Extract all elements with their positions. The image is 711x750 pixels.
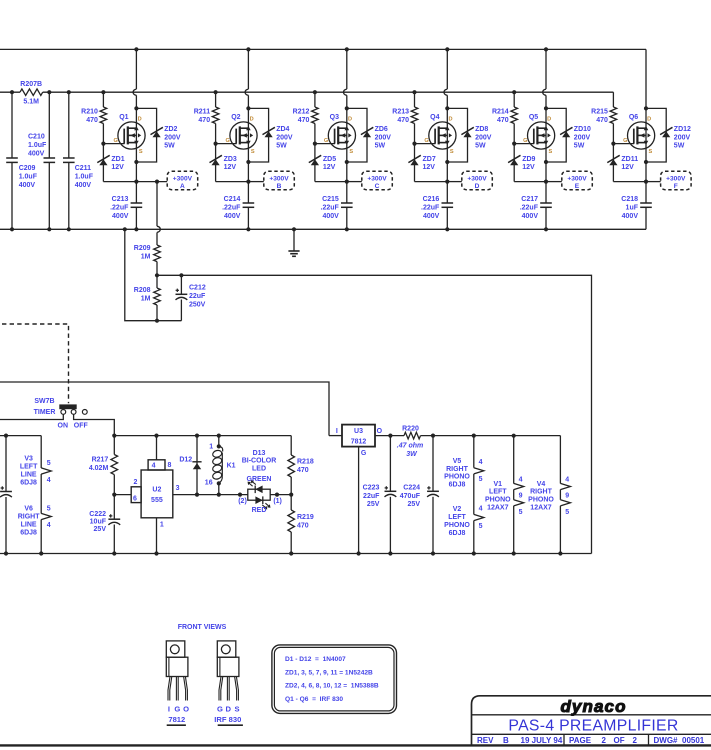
tube V6 RIGHT LINE 6DJ8 heater (41, 513, 51, 519)
timer U2 555 (141, 470, 173, 518)
svg-text:1: 1 (160, 522, 164, 529)
capacitor C218 1uF 400V (640, 202, 652, 204)
svg-text:PAS-4 PREAMPLIFIER: PAS-4 PREAMPLIFIER (508, 717, 678, 734)
svg-text:6DJ8: 6DJ8 (449, 530, 466, 537)
svg-text:200V: 200V (475, 134, 492, 141)
svg-text:C211: C211 (75, 165, 91, 172)
wire: drain branch to ZD4 (248, 108, 268, 162)
svg-text:S: S (251, 149, 255, 155)
svg-text:1M: 1M (141, 253, 151, 260)
svg-text:S: S (450, 149, 454, 155)
resistor R208 1M (156, 275, 158, 288)
svg-text:R218: R218 (297, 458, 314, 465)
wire: source bottom wire of Q2 (216, 181, 249, 183)
svg-text:12AX7: 12AX7 (530, 504, 552, 511)
svg-text:S: S (549, 149, 553, 155)
svg-text:ZD1, 3, 5, 7, 9, 11 = 1N5242B: ZD1, 3, 5, 7, 9, 11 = 1N5242B (285, 669, 373, 676)
wire: R217/C222 junction to U2 pins 2,6 (114, 494, 131, 496)
diode D12 1N4007 (196, 436, 198, 495)
wire: switch linkage (dashed) (2, 324, 69, 403)
svg-text:470: 470 (198, 117, 210, 124)
page bottom border (0, 744, 711, 746)
svg-text:G: G (114, 138, 118, 144)
svg-text:10uF: 10uF (90, 519, 107, 526)
resistor R215 470 (610, 107, 617, 124)
wire: middle rail (43, 91, 614, 93)
svg-text:00501: 00501 (682, 736, 705, 745)
node +300V B page connector (264, 171, 295, 190)
svg-text:ZD1: ZD1 (111, 156, 124, 163)
svg-text:D: D (250, 117, 254, 123)
svg-text:C217: C217 (521, 196, 538, 203)
wire: U2 pin 1 to return (156, 518, 158, 554)
tube V3 LEFT LINE 6DJ8 heater (40, 436, 42, 468)
svg-text:5W: 5W (674, 143, 685, 150)
wire: heater return bus (0, 553, 592, 555)
wire: gate lead of Q5 (514, 143, 534, 145)
svg-text:C213: C213 (112, 196, 129, 203)
svg-text:400V: 400V (28, 150, 45, 157)
svg-text:5.1M: 5.1M (23, 99, 39, 106)
svg-text:2: 2 (602, 736, 607, 745)
svg-text:19 JULY 94: 19 JULY 94 (521, 736, 563, 745)
svg-text:6DJ8: 6DJ8 (20, 479, 37, 486)
svg-text:12V: 12V (423, 164, 436, 171)
svg-text:K1: K1 (227, 463, 236, 470)
transistor Q6 IRF830 MOSFET (628, 122, 655, 149)
svg-text:.47 ohm: .47 ohm (397, 442, 423, 449)
svg-text:G: G (324, 138, 328, 144)
svg-text:6DJ8: 6DJ8 (449, 482, 466, 489)
svg-text:5: 5 (47, 505, 51, 512)
svg-text:.22uF: .22uF (110, 204, 129, 211)
node: heater bias divider midpoint (155, 273, 159, 277)
svg-text:S: S (349, 149, 353, 155)
svg-text:470: 470 (497, 117, 509, 124)
zener diode ZD12 200V 5W (662, 131, 670, 137)
svg-text:+300V: +300V (567, 175, 587, 182)
zener diode ZD6 200V 5W (363, 131, 371, 137)
transistor Q2 IRF830 MOSFET (230, 122, 257, 149)
wire: drain-source column of Q6 (645, 49, 647, 203)
svg-text:8: 8 (168, 462, 172, 469)
svg-text:200V: 200V (276, 134, 293, 141)
svg-text:D: D (448, 117, 452, 123)
wire: bottom return rail (0, 228, 646, 230)
svg-text:7812: 7812 (351, 438, 367, 445)
svg-text:4: 4 (479, 506, 483, 513)
svg-text:(2): (2) (238, 498, 247, 505)
svg-text:R213: R213 (392, 109, 409, 116)
svg-text:5W: 5W (276, 143, 287, 150)
svg-text:C: C (375, 183, 380, 190)
title block (472, 696, 711, 746)
svg-text:C216: C216 (423, 196, 440, 203)
capacitor C214 .22uF 400V (243, 202, 255, 204)
svg-text:6: 6 (133, 496, 137, 503)
svg-text:200V: 200V (674, 134, 691, 141)
svg-text:Q5: Q5 (529, 114, 538, 121)
capacitor C211 1.0uF 400V (68, 92, 70, 158)
svg-text:C222: C222 (89, 511, 106, 518)
svg-text:ZD9: ZD9 (522, 156, 535, 163)
svg-text:R208: R208 (134, 287, 151, 294)
svg-text:E: E (575, 183, 580, 190)
wire: drain-source column of Q1 (135, 49, 137, 89)
svg-text:F: F (674, 183, 678, 190)
svg-text:Q1 - Q6 = IRF 830: Q1 - Q6 = IRF 830 (285, 696, 343, 703)
svg-text:OFF: OFF (74, 422, 89, 429)
wire: gate lead of Q6 (613, 143, 634, 145)
svg-text:1M: 1M (141, 295, 151, 302)
capacitor C223 22uF 25V (389, 436, 391, 492)
wire: U2 pins 4,8 to +12V (156, 436, 158, 460)
zener diode ZD7 12V (410, 159, 418, 165)
wire: gate column R215 branch (612, 92, 614, 107)
svg-text:5: 5 (519, 509, 523, 516)
svg-text:R210: R210 (81, 109, 98, 116)
svg-text:+300V: +300V (467, 175, 487, 182)
svg-text:400V: 400V (75, 182, 92, 189)
wire: +300V tap D (447, 181, 462, 183)
wire: heater supply top left segment (0, 435, 41, 437)
svg-text:16: 16 (205, 479, 213, 486)
svg-text:5W: 5W (475, 143, 486, 150)
capacitor C212 22uF 250V (180, 275, 182, 294)
svg-text:RIGHT: RIGHT (18, 514, 41, 521)
svg-text:5W: 5W (375, 143, 386, 150)
zener diode ZD3 12V (212, 159, 220, 165)
svg-text:1.0uF: 1.0uF (19, 173, 38, 180)
wire: V5 to V2 heater link (473, 474, 475, 515)
svg-text:V2: V2 (453, 506, 462, 513)
svg-text:IRF 830: IRF 830 (214, 715, 241, 724)
svg-text:R212: R212 (293, 109, 310, 116)
svg-text:470: 470 (298, 117, 310, 124)
wire: gate column R212 branch (314, 92, 316, 107)
svg-text:C223: C223 (363, 484, 380, 491)
svg-text:4: 4 (47, 477, 51, 484)
svg-text:12V: 12V (111, 164, 124, 171)
package front view Q1-Q6 IRF 830 (G D S) (217, 641, 236, 657)
svg-text:1.0uF: 1.0uF (28, 142, 47, 149)
svg-text:6DJ8: 6DJ8 (20, 530, 37, 537)
svg-text:5: 5 (479, 523, 483, 530)
svg-text:4: 4 (47, 522, 51, 529)
svg-text:dynaco: dynaco (560, 697, 626, 716)
svg-text:470: 470 (297, 467, 309, 474)
svg-text:25V: 25V (367, 501, 380, 508)
transistor Q4 IRF830 MOSFET (429, 122, 456, 149)
wire: drain-source column of Q4 (446, 49, 448, 89)
svg-text:O: O (377, 428, 383, 435)
svg-text:ZD10: ZD10 (574, 126, 591, 133)
capacitor (heater filter, off-page label) (5, 436, 7, 492)
svg-text:R214: R214 (492, 109, 509, 116)
zener diode ZD4 200V 5W (265, 131, 273, 137)
capacitor C222 10uF 25V (113, 495, 115, 520)
svg-text:9: 9 (565, 492, 569, 499)
wire: raw DC supply to U3 (0, 382, 329, 436)
svg-text:.22uF: .22uF (520, 204, 539, 211)
svg-text:470: 470 (86, 117, 98, 124)
svg-text:3: 3 (176, 485, 180, 492)
svg-text:V1: V1 (494, 481, 503, 488)
svg-text:250V: 250V (189, 301, 206, 308)
resistor R212 470 (312, 107, 319, 124)
svg-text:D: D (647, 117, 651, 123)
zener diode ZD8 200V 5W (463, 131, 471, 137)
svg-text:R215: R215 (591, 109, 608, 116)
svg-text:+300V: +300V (367, 175, 387, 182)
wire: +300V tap F (646, 181, 661, 183)
capacitor C224 470uF 25V (432, 436, 434, 492)
svg-text:12V: 12V (522, 164, 535, 171)
svg-text:C212: C212 (189, 284, 206, 291)
svg-text:ZD2, 4, 6, 8, 10, 12 = 1N5388: ZD2, 4, 6, 8, 10, 12 = 1N5388B (285, 683, 379, 690)
wire: drain branch to ZD2 (136, 108, 156, 162)
svg-text:D13: D13 (253, 450, 266, 457)
svg-text:.22uF: .22uF (222, 204, 241, 211)
notes box (272, 645, 397, 714)
wire: drain branch to ZD8 (447, 108, 467, 162)
svg-text:PHONO: PHONO (485, 497, 511, 504)
wire: gate node to zener ZD11 (612, 124, 614, 182)
zener diode ZD9 12V (510, 159, 518, 165)
svg-text:R220: R220 (402, 425, 419, 432)
svg-text:.22uF: .22uF (421, 204, 440, 211)
package front view U3 7812 (I G O) (166, 641, 185, 657)
wire: source bottom wire of Q1 (103, 181, 136, 183)
svg-text:FRONT VIEWS: FRONT VIEWS (178, 624, 227, 631)
svg-text:G: G (424, 138, 428, 144)
wire: switch ON contact to timer circuit (74, 414, 115, 435)
wire: gate lead of Q1 (103, 143, 124, 145)
svg-text:ZD4: ZD4 (276, 126, 289, 133)
resistor R213 470 (411, 107, 418, 124)
svg-text:ZD12: ZD12 (674, 126, 691, 133)
svg-text:D12: D12 (179, 456, 192, 463)
wire: gate node to zener ZD1 (102, 124, 104, 182)
ground (293, 229, 295, 251)
svg-text:470: 470 (397, 117, 409, 124)
svg-text:1.0uF: 1.0uF (75, 173, 94, 180)
svg-text:I: I (336, 428, 338, 435)
svg-text:4: 4 (479, 459, 483, 466)
svg-text:S: S (235, 705, 240, 714)
svg-text:400V: 400V (224, 213, 241, 220)
svg-text:470: 470 (297, 523, 309, 530)
svg-text:D: D (475, 183, 480, 190)
relay K1 coil (218, 436, 220, 447)
wire: U2 pin 3 output (173, 494, 248, 496)
svg-text:ZD6: ZD6 (375, 126, 388, 133)
svg-text:A: A (180, 183, 185, 190)
svg-text:9: 9 (519, 492, 523, 499)
svg-text:4: 4 (152, 463, 156, 470)
node +300V D page connector (462, 171, 493, 190)
svg-text:ZD2: ZD2 (164, 126, 177, 133)
wire: heater supply bus (421, 435, 561, 437)
svg-text:D: D (138, 117, 142, 123)
wire: +300V tap A (136, 181, 167, 183)
capacitor C213 .22uF 400V (131, 202, 143, 204)
wire: source bottom wire of Q3 (315, 181, 347, 183)
wire: gate lead of Q4 (415, 143, 436, 145)
svg-text:12V: 12V (621, 164, 634, 171)
svg-text:LEFT: LEFT (20, 463, 38, 470)
svg-text:22uF: 22uF (363, 493, 380, 500)
svg-text:R211: R211 (194, 109, 210, 116)
svg-text:B: B (277, 183, 282, 190)
svg-text:LED: LED (252, 465, 266, 472)
svg-text:D1 - D12 = 1N4007: D1 - D12 = 1N4007 (285, 656, 346, 663)
wire: B+ feed from +300V A to divider (hops bottom rail) (155, 180, 159, 184)
wire: +300V tap C (347, 181, 362, 183)
svg-text:C224: C224 (403, 484, 420, 491)
svg-text:G: G (623, 138, 627, 144)
svg-text:400V: 400V (622, 213, 639, 220)
svg-text:RIGHT: RIGHT (530, 489, 553, 496)
svg-text:7812: 7812 (168, 715, 185, 724)
svg-text:V4: V4 (537, 481, 546, 488)
wire: U3 ground lead (358, 447, 360, 554)
svg-text:.22uF: .22uF (321, 204, 340, 211)
svg-text:V5: V5 (453, 458, 462, 465)
svg-text:1uF: 1uF (626, 204, 639, 211)
wire: drain-source column of Q5 (545, 49, 547, 89)
wire: middle rail left segment (0, 91, 20, 93)
svg-text:O: O (183, 705, 189, 714)
svg-text:5: 5 (565, 509, 569, 516)
wire: gate column R211 branch (215, 92, 217, 107)
svg-text:R217: R217 (92, 456, 109, 463)
svg-text:4.02M: 4.02M (89, 465, 109, 472)
svg-text:22uF: 22uF (189, 293, 206, 300)
svg-text:ZD7: ZD7 (423, 156, 436, 163)
svg-text:G: G (174, 705, 180, 714)
svg-text:C209: C209 (19, 165, 36, 172)
node +300V C page connector (362, 171, 393, 190)
regulator U3 7812 (329, 435, 342, 437)
wire: gate node to zener ZD3 (215, 124, 217, 182)
svg-text:12V: 12V (224, 164, 237, 171)
zener diode ZD10 200V 5W (562, 131, 570, 137)
svg-text:Q6: Q6 (629, 114, 638, 121)
wire: gate column R214 branch (513, 92, 515, 107)
svg-text:U2: U2 (152, 486, 161, 493)
svg-text:RED: RED (252, 507, 267, 514)
svg-text:C210: C210 (28, 133, 45, 140)
resistor R209 1M (154, 245, 161, 262)
svg-text:BI-COLOR: BI-COLOR (242, 458, 277, 465)
svg-text:S: S (139, 149, 143, 155)
svg-text:C215: C215 (322, 196, 339, 203)
wire: source bottom wire of Q4 (415, 181, 448, 183)
svg-text:2: 2 (633, 736, 638, 745)
zener diode ZD5 12V (311, 159, 319, 165)
resistor R214 470 (511, 107, 518, 124)
transistor Q1 IRF830 MOSFET (118, 122, 145, 149)
capacitor C216 .22uF 400V (442, 202, 454, 204)
svg-text:Q4: Q4 (430, 114, 439, 121)
svg-text:470uF: 470uF (400, 493, 421, 500)
svg-text:R207B: R207B (20, 81, 42, 88)
svg-text:D: D (547, 117, 551, 123)
svg-text:S: S (649, 149, 653, 155)
resistor R220 .47 ohm 3W (404, 432, 421, 439)
svg-text:LINE: LINE (21, 471, 37, 478)
svg-text:D: D (348, 117, 352, 123)
node +300V E page connector (562, 171, 593, 190)
svg-text:LEFT: LEFT (489, 489, 507, 496)
svg-text:25V: 25V (408, 501, 421, 508)
svg-text:4: 4 (565, 476, 569, 483)
svg-text:200V: 200V (375, 134, 392, 141)
svg-text:LEFT: LEFT (448, 514, 466, 521)
svg-text:ON: ON (58, 422, 69, 429)
svg-text:Q2: Q2 (231, 114, 240, 121)
svg-text:G: G (361, 450, 367, 457)
svg-text:G: G (226, 138, 230, 144)
svg-text:12AX7: 12AX7 (487, 504, 509, 511)
capacitor C210 1.0uF 400V (48, 92, 50, 158)
node +300V F page connector (661, 171, 692, 190)
svg-text:+300V: +300V (269, 175, 289, 182)
svg-text:ZD8: ZD8 (475, 126, 488, 133)
svg-text:U3: U3 (354, 428, 363, 435)
svg-text:(1): (1) (273, 498, 282, 505)
svg-text:400V: 400V (19, 182, 36, 189)
resistor R207B (20, 89, 43, 96)
svg-text:PAGE: PAGE (569, 736, 592, 745)
svg-text:OF: OF (614, 736, 625, 745)
svg-text:SW7B: SW7B (34, 398, 54, 405)
tube V4 RIGHT PHONO 12AX7 heater (559, 436, 561, 484)
resistor R211 470 (212, 107, 219, 124)
wire: drain-source column of Q2 (247, 49, 249, 89)
wire: drain branch to ZD10 (546, 108, 566, 162)
switch SW7B TIMER (59, 404, 76, 409)
wire: gate node to zener ZD5 (314, 124, 316, 182)
svg-text:C214: C214 (224, 196, 241, 203)
wire: +12V timer rail (114, 435, 291, 437)
svg-text:DWG#: DWG# (654, 736, 679, 745)
node +300V A page connector (167, 171, 198, 190)
svg-text:555: 555 (151, 497, 163, 504)
zener diode ZD2 200V 5W (153, 131, 161, 137)
svg-text:D: D (226, 705, 232, 714)
resistor R219 470 (290, 495, 292, 510)
transistor Q5 IRF830 MOSFET (528, 122, 555, 149)
svg-text:LINE: LINE (21, 522, 37, 529)
svg-text:Q3: Q3 (330, 114, 339, 121)
svg-text:V6: V6 (24, 505, 33, 512)
wire: source bottom wire of Q5 (514, 181, 546, 183)
resistor R217 4.02M (113, 436, 115, 455)
wire: gate node to zener ZD7 (414, 124, 416, 182)
svg-text:4: 4 (519, 476, 523, 483)
capacitor C215 .22uF 400V (341, 202, 353, 204)
wire: top +300V supply rail (0, 48, 646, 50)
svg-text:R209: R209 (134, 245, 151, 252)
tube V2 LEFT PHONO 6DJ8 heater (474, 514, 484, 520)
LED D13 bi-color (248, 489, 270, 500)
svg-text:2: 2 (133, 479, 137, 486)
svg-text:ZD11: ZD11 (621, 156, 638, 163)
svg-text:25V: 25V (94, 526, 107, 533)
svg-text:12V: 12V (323, 164, 336, 171)
